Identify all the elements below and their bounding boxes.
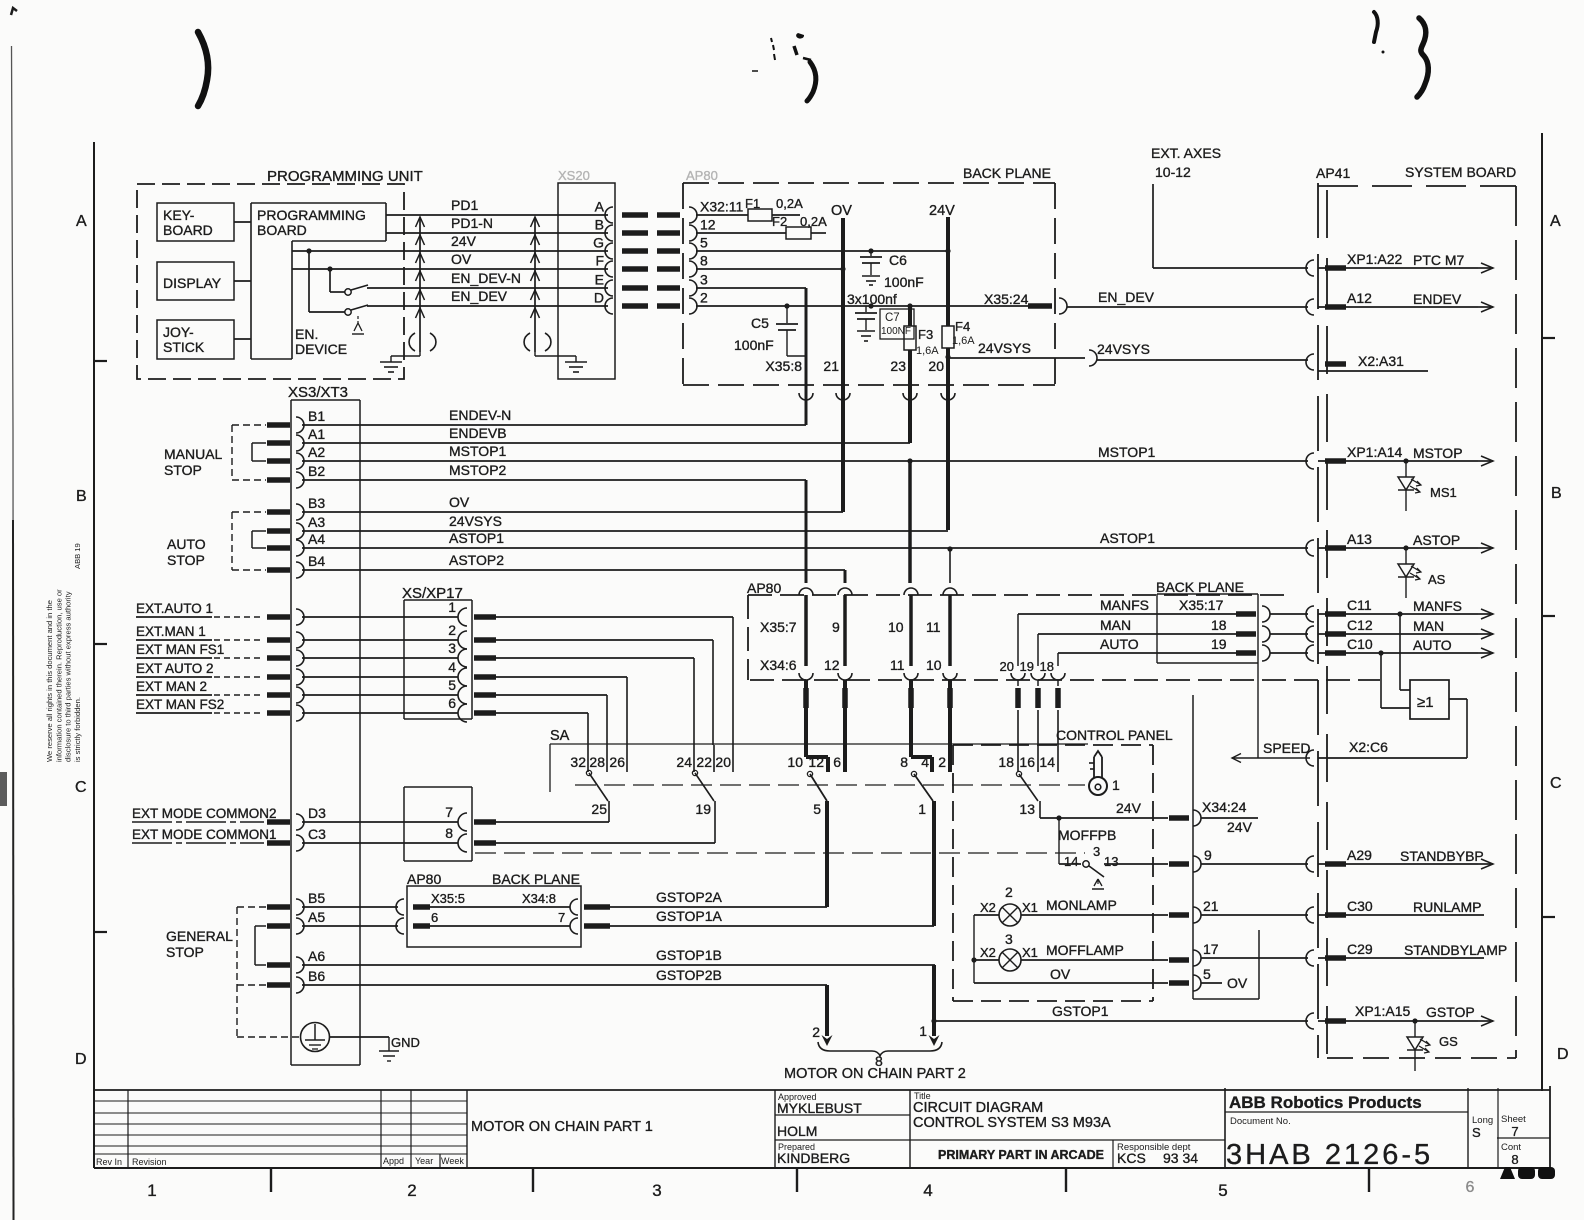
node OV tap — [327, 266, 345, 292]
svg-text:X2:A31: X2:A31 — [1358, 353, 1404, 369]
pin arc top — [904, 588, 918, 595]
svg-text:2: 2 — [407, 1181, 416, 1200]
svg-text:20: 20 — [715, 754, 731, 770]
wire GSTOP2A — [610, 889, 827, 907]
row A13 ASTOP — [1306, 531, 1493, 556]
svg-text:XP1:A15: XP1:A15 — [1355, 1003, 1410, 1019]
wire EN_DEV-N pin3 — [696, 287, 806, 289]
cable mark — [267, 692, 290, 698]
svg-text:7: 7 — [1511, 1124, 1518, 1139]
svg-text:6: 6 — [833, 754, 841, 770]
svg-text:MSTOP2: MSTOP2 — [449, 462, 507, 478]
scan artifact: ink squiggle upper-left — [198, 32, 208, 106]
pin A XS20 — [595, 199, 613, 224]
bus MSTOP1 drop — [907, 458, 912, 583]
svg-text:MAN: MAN — [1100, 617, 1131, 633]
svg-text:ASTOP1: ASTOP1 — [449, 530, 504, 546]
label EXT MAN 2 — [136, 679, 264, 695]
auto stop bracket — [167, 512, 266, 570]
label EXT MAN FS1 — [136, 642, 264, 658]
pin 2 AP80 — [689, 290, 708, 315]
drawing frame right border — [1541, 133, 1543, 1091]
row AUTO — [1058, 636, 1308, 661]
bus MSTOP2 drop — [805, 480, 808, 583]
svg-text:A4: A4 — [308, 531, 325, 547]
svg-text:11: 11 — [926, 619, 941, 635]
svg-text:PROGRAMMING UNIT: PROGRAMMING UNIT — [267, 168, 423, 185]
svg-text:B1: B1 — [308, 408, 325, 424]
labels X34 row — [760, 657, 942, 673]
svg-text:13: 13 — [1019, 801, 1035, 817]
svg-text:X35:5: X35:5 — [431, 891, 465, 906]
svg-text:SA: SA — [550, 728, 570, 744]
backplane strip — [1193, 695, 1259, 999]
connector XS3/XT3 — [288, 384, 360, 1065]
pin X32:11 AP80 — [689, 199, 744, 224]
svg-text:PTC M7: PTC M7 — [1413, 252, 1465, 268]
margin legal text (rotated) — [45, 543, 82, 762]
svg-text:2: 2 — [1005, 884, 1013, 900]
svg-text:C: C — [75, 779, 87, 796]
labels X35 row — [760, 619, 941, 635]
svg-text:CONTROL PANEL: CONTROL PANEL — [1056, 727, 1173, 743]
column number 4 — [923, 1181, 932, 1200]
svg-text:100NF: 100NF — [881, 326, 911, 337]
pin B1 XS3/XT3 — [296, 408, 325, 433]
svg-text:1: 1 — [918, 801, 926, 817]
label EXT MAN FS2 — [136, 697, 264, 713]
pin arc top — [838, 588, 852, 595]
svg-text:D: D — [594, 290, 604, 306]
keyboard block — [157, 203, 234, 241]
svg-text:EN_DEV: EN_DEV — [1098, 289, 1155, 305]
wire 24V pin5 — [696, 248, 951, 253]
svg-text:GND: GND — [391, 1035, 420, 1050]
cable conductor marks — [622, 230, 680, 236]
svg-text:MANFS: MANFS — [1413, 598, 1462, 614]
fuse F2 — [772, 214, 827, 239]
brace motor on chain — [818, 1042, 942, 1056]
zone letter C right — [1550, 775, 1562, 792]
cable mark — [1015, 688, 1021, 708]
wire OV — [292, 251, 608, 269]
wire to SA contact — [496, 677, 627, 745]
svg-text:G: G — [593, 235, 604, 251]
cable conductor marks — [622, 266, 680, 272]
svg-text:18: 18 — [1211, 617, 1227, 633]
backplane box GSTOP — [407, 871, 581, 947]
row X2:A31 — [1306, 353, 1428, 371]
cable mark — [267, 528, 290, 534]
svg-text:OV: OV — [451, 251, 472, 267]
label AP41 — [1316, 165, 1350, 181]
AP80 mid box — [747, 580, 1380, 680]
svg-text:EXT MAN 2: EXT MAN 2 — [136, 679, 207, 694]
svg-text:A2: A2 — [308, 444, 325, 460]
wire OV to bus — [302, 494, 843, 512]
row C10 AUTO — [1306, 636, 1493, 661]
control panel dashed box — [953, 727, 1173, 1001]
lamp bracket — [971, 915, 976, 983]
svg-text:MOFFLAMP: MOFFLAMP — [1046, 942, 1124, 958]
title cell — [910, 1088, 1225, 1168]
svg-text:CIRCUIT DIAGRAM: CIRCUIT DIAGRAM — [913, 1100, 1043, 1116]
row MAN — [1038, 617, 1308, 642]
capacitor C7 — [855, 306, 914, 341]
svg-text:AP41: AP41 — [1316, 165, 1350, 181]
svg-text:24VSYS: 24VSYS — [1097, 341, 1150, 357]
label AP80 (faded) — [686, 168, 718, 183]
cable mark — [267, 458, 290, 464]
wire to SA contact — [496, 640, 713, 745]
svg-text:6: 6 — [1466, 1179, 1475, 1196]
frame column tick — [532, 1168, 534, 1192]
svg-text:GSTOP1B: GSTOP1B — [656, 947, 722, 963]
svg-text:1: 1 — [448, 599, 456, 615]
wire ENDEV-N — [302, 407, 806, 425]
svg-text:EXT.MAN 1: EXT.MAN 1 — [136, 624, 206, 639]
bus ASTOP2 riser — [844, 570, 847, 583]
svg-text:4: 4 — [448, 659, 456, 675]
frame zone tick B/C right — [1542, 615, 1555, 617]
svg-text:X2: X2 — [980, 945, 996, 960]
svg-text:SPEED: SPEED — [1263, 740, 1310, 756]
label 2 — [1005, 884, 1013, 900]
frame column tick — [270, 1168, 272, 1192]
label PROGRAMMING UNIT — [267, 168, 423, 185]
wire GSTOP1B — [656, 947, 722, 963]
LED AS — [1398, 548, 1446, 598]
svg-text:B6: B6 — [308, 968, 325, 984]
svg-text:MANFS: MANFS — [1100, 597, 1149, 613]
svg-text:100nF: 100nF — [884, 274, 924, 290]
pin 3 AP80 — [689, 272, 708, 297]
svg-text:A: A — [1550, 213, 1561, 230]
label 8 — [875, 1053, 883, 1069]
pin 2 XS/XP17 — [296, 622, 467, 649]
svg-text:5: 5 — [448, 677, 456, 693]
cable mark — [947, 688, 953, 708]
svg-text:EXT AUTO 2: EXT AUTO 2 — [136, 661, 214, 676]
svg-text:9: 9 — [832, 619, 840, 635]
svg-text:C5: C5 — [751, 315, 769, 331]
row GSTOP2A backplane — [396, 891, 610, 915]
svg-text:8: 8 — [445, 825, 453, 841]
svg-text:F: F — [595, 253, 604, 269]
cable mark — [267, 923, 290, 929]
svg-text:C7: C7 — [885, 312, 900, 324]
svg-text:STANDBYLAMP: STANDBYLAMP — [1404, 942, 1507, 958]
pin 5 XS/XP17 — [296, 677, 467, 704]
wire pin7 to SA 25 — [496, 821, 609, 823]
svg-text:DISPLAY: DISPLAY — [163, 275, 222, 291]
svg-text:C3: C3 — [308, 826, 326, 842]
cable mark — [267, 710, 290, 716]
pin 3 XS/XP17 — [296, 640, 467, 667]
svg-text:10: 10 — [926, 657, 942, 673]
cable mark — [267, 567, 290, 573]
svg-text:PROGRAMMING: PROGRAMMING — [257, 207, 366, 223]
general stop bracket — [166, 907, 266, 985]
switch section SA-a — [570, 745, 627, 822]
svg-text:EXT MODE COMMON2: EXT MODE COMMON2 — [132, 806, 277, 821]
pin 17 — [1193, 941, 1308, 966]
svg-text:STICK: STICK — [163, 339, 205, 355]
pin 8 AP80 — [689, 253, 708, 278]
svg-text:EN.: EN. — [295, 326, 318, 342]
label XS20 (faded) — [558, 168, 590, 183]
svg-text:6: 6 — [448, 695, 456, 711]
dashed wire to ground — [237, 985, 300, 1037]
svg-text:2: 2 — [448, 622, 456, 638]
svg-text:OV: OV — [449, 494, 470, 510]
cable mark — [1055, 688, 1061, 708]
cable mark — [267, 962, 290, 968]
frame zone tick B/C left — [94, 643, 107, 645]
drop GSTOP1B to arrow — [931, 965, 936, 1036]
svg-text:GENERAL: GENERAL — [166, 928, 233, 944]
pin 7 — [445, 804, 496, 831]
programming board block — [251, 203, 386, 359]
svg-text:OV: OV — [831, 203, 852, 219]
svg-text:5: 5 — [813, 801, 821, 817]
pin 6 XS/XP17 — [296, 695, 467, 722]
column number 3 — [652, 1181, 661, 1200]
svg-text:0,2A: 0,2A — [800, 214, 827, 229]
svg-text:KEY-: KEY- — [163, 207, 195, 223]
scan artifact: ink marks top-middle — [752, 33, 816, 101]
svg-text:4: 4 — [921, 754, 929, 770]
svg-text:MONLAMP: MONLAMP — [1046, 897, 1117, 913]
lamp MONLAMP — [974, 897, 1168, 926]
svg-text:BACK PLANE: BACK PLANE — [1156, 579, 1244, 595]
svg-text:MAN: MAN — [1413, 618, 1444, 634]
pin A6 — [296, 948, 935, 973]
pin 8 — [445, 825, 496, 852]
switch SA frame — [550, 728, 1088, 792]
wire joystick to board — [234, 338, 251, 340]
svg-text:MYKLEBUST: MYKLEBUST — [777, 1100, 862, 1116]
wire 12 to F2 — [696, 232, 786, 234]
svg-text:1: 1 — [1112, 777, 1120, 793]
display block — [157, 262, 234, 300]
svg-text:5: 5 — [1203, 966, 1211, 982]
wire GSTOP2B — [656, 967, 722, 983]
wire display to board — [234, 280, 251, 282]
svg-text:32: 32 — [570, 754, 586, 770]
svg-text:EN_DEV: EN_DEV — [451, 288, 508, 304]
svg-text:HOLM: HOLM — [777, 1123, 817, 1139]
svg-text:28: 28 — [589, 754, 605, 770]
svg-text:OV: OV — [1227, 975, 1248, 991]
wire MANFS corner — [1011, 614, 1025, 686]
pin A4 XS3/XT3 — [296, 531, 325, 556]
mid box conductor — [904, 595, 918, 686]
scan artifact: left page edge line — [0, 46, 14, 1220]
svg-text:93 34: 93 34 — [1163, 1150, 1198, 1166]
svg-text:ABB Robotics Products: ABB Robotics Products — [1229, 1093, 1422, 1112]
svg-text:C11: C11 — [1347, 597, 1372, 613]
svg-text:3x100nf: 3x100nf — [847, 291, 897, 307]
svg-text:F4: F4 — [955, 319, 970, 334]
svg-text:20: 20 — [928, 358, 944, 374]
mid box conductor — [838, 595, 852, 686]
wire EN_DEV-N — [367, 270, 608, 288]
pin 5 OV — [1193, 966, 1248, 991]
svg-text:X35:17: X35:17 — [1179, 597, 1224, 613]
svg-text:PD1-N: PD1-N — [451, 215, 493, 231]
svg-text:X34:8: X34:8 — [522, 891, 556, 906]
fuse F3 — [904, 306, 939, 443]
wire AUTO corner — [1051, 653, 1065, 686]
svg-text:6: 6 — [431, 910, 438, 925]
svg-text:X2: X2 — [980, 900, 996, 915]
svg-text:Revision: Revision — [132, 1157, 167, 1167]
svg-text:EXT MODE COMMON1: EXT MODE COMMON1 — [132, 827, 277, 842]
cable mark — [267, 822, 290, 843]
svg-text:18: 18 — [998, 754, 1014, 770]
svg-text:ENDEV-N: ENDEV-N — [449, 407, 511, 423]
svg-text:MSTOP: MSTOP — [1413, 445, 1463, 461]
riser SA1 to GSTOP1A — [932, 806, 936, 926]
approved cell — [775, 1090, 910, 1168]
svg-text:AS: AS — [1428, 572, 1446, 587]
svg-text:2: 2 — [938, 754, 946, 770]
scan artifact: ink marks top-right — [1374, 12, 1428, 97]
svg-text:19: 19 — [1020, 659, 1034, 674]
row C30 RUNLAMP — [1306, 898, 1484, 923]
label EXT AUTO 2 — [136, 661, 264, 677]
svg-text:B: B — [1551, 485, 1562, 502]
cable mark — [908, 688, 914, 708]
wire pin8 to SA 19 — [496, 842, 715, 844]
wire ENDEVB — [302, 425, 910, 443]
svg-text:PD1: PD1 — [451, 197, 478, 213]
svg-text:24VSYS: 24VSYS — [449, 513, 502, 529]
svg-text:JOY-: JOY- — [163, 324, 194, 340]
row XP1:A22 PTC M7 — [1306, 251, 1493, 276]
ground symbol XS3 — [301, 1023, 330, 1052]
svg-text:F1: F1 — [745, 196, 760, 211]
cable mark — [267, 440, 290, 446]
cable shield symbol right — [524, 333, 551, 351]
svg-text:A: A — [76, 213, 87, 230]
joystick block — [157, 320, 234, 359]
zone letter B right — [1551, 485, 1562, 502]
pin B6 — [296, 968, 827, 993]
connector XS/XP17 lower — [404, 787, 472, 861]
svg-text:BACK PLANE: BACK PLANE — [963, 165, 1051, 181]
node 24VSYS tap — [945, 354, 950, 359]
svg-text:Year: Year — [415, 1156, 433, 1166]
svg-text:EXT. AXES: EXT. AXES — [1151, 145, 1221, 161]
svg-text:MSTOP1: MSTOP1 — [1098, 444, 1156, 460]
pin A1 XS3/XT3 — [296, 426, 325, 451]
ground left of shield — [380, 352, 420, 372]
wire PD1-N — [386, 215, 608, 233]
svg-text:C: C — [1550, 775, 1562, 792]
switch section SA-b — [676, 745, 733, 843]
svg-text:A1: A1 — [308, 426, 325, 442]
svg-text:C6: C6 — [889, 252, 907, 268]
label EXT MODE COMMON1 — [132, 827, 277, 843]
cable mark — [474, 692, 496, 698]
svg-text:C12: C12 — [1347, 617, 1373, 633]
svg-text:AUTO: AUTO — [1413, 637, 1452, 653]
cable mark — [1169, 912, 1189, 918]
cable mark — [474, 637, 496, 643]
svg-text:BOARD: BOARD — [257, 222, 307, 238]
wire GSTOP1 — [934, 1003, 1308, 1021]
sheet cells — [1472, 1088, 1550, 1168]
cable mark — [267, 509, 290, 515]
row MANFS — [1018, 597, 1308, 622]
LED MS1 — [1398, 461, 1457, 511]
zone letter A right — [1550, 213, 1561, 230]
fuse F4 — [942, 319, 975, 530]
svg-text:AP80: AP80 — [747, 580, 781, 596]
wire to MOFFPB — [1059, 818, 1081, 864]
column number 5 — [1218, 1181, 1227, 1200]
svg-text:F2: F2 — [772, 214, 787, 229]
svg-text:PRIMARY PART IN ARCADE: PRIMARY PART IN ARCADE — [938, 1148, 1104, 1162]
svg-text:10-12: 10-12 — [1155, 164, 1191, 180]
svg-text:ASTOP: ASTOP — [1413, 532, 1460, 548]
capacitor C5 — [734, 306, 806, 356]
svg-text:12: 12 — [824, 657, 840, 673]
label X34:8 — [522, 891, 556, 906]
svg-text:X2:C6: X2:C6 — [1349, 739, 1388, 755]
svg-text:XP1:A14: XP1:A14 — [1347, 444, 1402, 460]
wire 24VSYS to backplane edge — [948, 340, 1085, 358]
svg-text:X35:7: X35:7 — [760, 619, 797, 635]
title block outline — [94, 1086, 1550, 1168]
svg-text:10: 10 — [787, 754, 803, 770]
svg-text:8: 8 — [700, 253, 708, 269]
labels pins 20 19 18 — [1000, 659, 1054, 674]
label BACK PLANE — [963, 165, 1051, 181]
switch section SA-d — [900, 680, 950, 926]
label MOTOR ON CHAIN PART 2 — [784, 1066, 966, 1082]
svg-text:STOP: STOP — [167, 552, 205, 568]
svg-text:F3: F3 — [918, 327, 933, 342]
cable mark — [267, 674, 290, 680]
svg-text:RUNLAMP: RUNLAMP — [1413, 899, 1481, 915]
cable mark — [474, 710, 496, 716]
svg-text:KINDBERG: KINDBERG — [777, 1150, 850, 1166]
cable mark — [267, 982, 290, 988]
svg-text:GSTOP2B: GSTOP2B — [656, 967, 722, 983]
svg-text:19: 19 — [1211, 636, 1227, 652]
LED GS — [1407, 1021, 1458, 1071]
pin B4 XS3/XT3 — [296, 553, 325, 578]
programming unit dashed box — [137, 184, 404, 379]
svg-text:11: 11 — [890, 657, 905, 673]
pin arc top — [943, 588, 957, 595]
manual stop bracket — [164, 425, 266, 480]
svg-text:E: E — [595, 272, 604, 288]
cable shield drain wire — [416, 217, 425, 352]
svg-text:22: 22 — [696, 754, 712, 770]
label 3x100nf — [847, 291, 897, 307]
AP80 top box dashed outline — [683, 183, 1055, 385]
svg-text:disclosure to third parties wi: disclosure to third parties without expr… — [64, 591, 73, 762]
row A12 ENDEV — [1306, 290, 1493, 315]
svg-text:3: 3 — [652, 1181, 661, 1200]
svg-text:26: 26 — [609, 754, 625, 770]
svg-text:ABB 19: ABB 19 — [73, 543, 82, 569]
cable mark — [267, 614, 290, 620]
